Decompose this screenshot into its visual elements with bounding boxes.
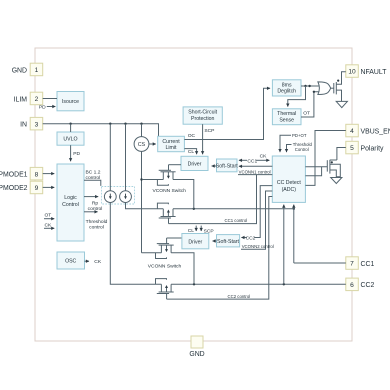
- svg-text:SCP: SCP: [204, 128, 214, 134]
- OSC box: [57, 252, 85, 269]
- wire CS sense drop: [141, 124, 143, 137]
- wire pin5 Polarity to Q3: [337, 148, 346, 161]
- wire CS to Current Limit: [149, 143, 156, 145]
- wire gate output to FET gate: [331, 87, 334, 89]
- current source I2: [120, 191, 132, 203]
- pin 10 NFAULT: [346, 65, 387, 78]
- svg-text:PD: PD: [73, 151, 80, 157]
- svg-text:Rp: Rp: [92, 201, 99, 207]
- wire soft-start1 to driver1: [212, 165, 217, 167]
- svg-text:GND: GND: [189, 351, 204, 358]
- dashed Rp current source block: [102, 187, 135, 205]
- svg-text:Short-Circuit: Short-Circuit: [188, 110, 217, 116]
- wire soft-start2 to driver2: [213, 240, 217, 242]
- CC2 stub to Soft-Start2: [241, 235, 255, 241]
- transistor Q6 CC2 switch: [156, 279, 174, 300]
- node IN-UVLO: [69, 123, 71, 125]
- wire VCONN2 control: [241, 191, 274, 249]
- svg-text:control: control: [88, 206, 103, 212]
- svg-text:OSC: OSC: [65, 259, 76, 265]
- svg-text:Protection: Protection: [191, 116, 214, 122]
- svg-text:UVLO: UVLO: [63, 137, 77, 143]
- svg-text:CC1: CC1: [361, 261, 375, 268]
- wire CC2 rail right to pin6: [171, 283, 346, 285]
- wire CC2 rail from Rp1: [110, 203, 161, 285]
- svg-text:Logic: Logic: [64, 195, 77, 201]
- svg-text:Soft-Start: Soft-Start: [217, 239, 239, 245]
- node CC1-VCONN1: [193, 208, 195, 210]
- CC Detect ADC box: [272, 156, 305, 202]
- wire CC1 sense to ADC: [293, 205, 295, 263]
- svg-text:CC2: CC2: [361, 282, 375, 289]
- transistor Q1 NFAULT: [334, 72, 346, 101]
- pin 8 PMODE1: [0, 167, 43, 180]
- node CC1-sense: [293, 208, 295, 210]
- node CS-VCONN1: [140, 178, 142, 180]
- node IN-Rp2: [124, 123, 126, 125]
- svg-text:control: control: [89, 224, 104, 230]
- svg-text:PD: PD: [39, 104, 46, 110]
- svg-text:SCP: SCP: [204, 229, 214, 235]
- node IN-Rp1: [109, 123, 111, 125]
- Rp control arrow: [84, 197, 102, 212]
- ground below Q3: [331, 178, 342, 184]
- wire IN rail: [43, 124, 159, 137]
- wire Q7 gate to Driver 2: [167, 237, 182, 239]
- node CC2-VCONN2: [193, 283, 195, 285]
- CL stub into Driver2: [188, 226, 196, 235]
- wire UVLO PD to Logic Control: [71, 145, 81, 161]
- BC 1.2 control wire: [84, 169, 101, 186]
- svg-text:CK: CK: [45, 222, 53, 228]
- pin 5 Polarity: [346, 141, 384, 154]
- wire CC2 control: [167, 197, 273, 300]
- pin 9 PMODE2: [0, 181, 43, 194]
- pin 6 CC2: [346, 278, 375, 291]
- svg-text:2: 2: [35, 96, 39, 103]
- wire CC1 control: [169, 175, 257, 224]
- svg-text:CL: CL: [188, 228, 195, 234]
- svg-text:PMODE1: PMODE1: [0, 171, 28, 178]
- OT input stub: [44, 213, 54, 219]
- svg-text:BC 1.2: BC 1.2: [86, 169, 101, 175]
- transistor Q5 VCONN switch 1: [157, 165, 175, 186]
- svg-text:Threshold: Threshold: [86, 219, 108, 225]
- OSC CK stub: [85, 259, 102, 265]
- PD+OT stub into CC Detect: [280, 133, 307, 152]
- svg-text:ILIM: ILIM: [14, 96, 28, 103]
- svg-text:Driver: Driver: [188, 240, 202, 246]
- pin 3 IN: [20, 117, 43, 129]
- Driver box 2: [182, 234, 209, 249]
- svg-text:OC: OC: [188, 133, 196, 139]
- wire VCONN1 from CS rail: [142, 179, 163, 181]
- svg-text:Deglitch: Deglitch: [277, 89, 296, 95]
- svg-text:3: 3: [35, 121, 39, 128]
- 8ms Deglitch box: [272, 80, 301, 96]
- svg-text:CK: CK: [260, 154, 268, 160]
- svg-text:IN: IN: [20, 122, 27, 129]
- wire feedback to thermal sense: [288, 86, 306, 107]
- ground below Q1: [336, 101, 347, 107]
- chip boundary frame: [35, 48, 352, 341]
- svg-text:CC1: CC1: [247, 158, 257, 164]
- CK stub into CC Detect: [256, 154, 269, 161]
- svg-text:PD+OT: PD+OT: [292, 133, 307, 138]
- CS circle: [134, 137, 149, 152]
- svg-text:VCONN Switch: VCONN Switch: [153, 188, 187, 194]
- Isource box: [57, 92, 84, 111]
- svg-text:4: 4: [350, 128, 354, 135]
- svg-text:Control: Control: [295, 147, 309, 152]
- SCP wire to driver: [203, 124, 215, 154]
- SCP stub into Driver2: [201, 226, 213, 235]
- node IN-CS: [140, 123, 142, 125]
- svg-text:10: 10: [348, 69, 356, 76]
- svg-text:Isource: Isource: [62, 99, 79, 105]
- svg-text:VCONN1 control: VCONN1 control: [239, 170, 271, 175]
- wire VCONN2 to CC2 rail: [171, 253, 194, 284]
- Short-Circuit Protection box: [183, 107, 222, 124]
- OR gate U2: [318, 82, 331, 95]
- svg-text:8ms: 8ms: [282, 82, 292, 88]
- svg-text:NFAULT: NFAULT: [361, 69, 388, 76]
- svg-text:CC1 control: CC1 control: [225, 218, 248, 223]
- pin 7 CC1: [346, 257, 375, 270]
- Thermal Sense box: [272, 109, 301, 125]
- svg-text:CC2: CC2: [246, 235, 256, 241]
- svg-text:CL: CL: [188, 149, 195, 155]
- svg-text:VCONN2 control: VCONN2 control: [242, 244, 274, 249]
- wire CC2 select: [254, 186, 272, 238]
- wire CS rail down: [141, 151, 143, 252]
- node OT-gate: [313, 91, 315, 93]
- Driver box U1: [181, 156, 208, 170]
- svg-text:Control: Control: [62, 202, 79, 208]
- wire IN to current source 2: [125, 124, 127, 191]
- Threshold control arrow: [84, 212, 108, 231]
- svg-text:Polarity: Polarity: [361, 145, 385, 152]
- svg-text:OT: OT: [303, 111, 310, 117]
- CC1 stub to Soft-Start1: [239, 158, 258, 164]
- wire pin7 CC1 sense: [294, 262, 346, 264]
- svg-text:CC Detect: CC Detect: [277, 180, 301, 186]
- CL wire to driver: [184, 149, 196, 156]
- wire pin8 to Logic Control: [43, 173, 55, 175]
- Threshold Control stub into CC Detect: [287, 142, 313, 152]
- wire deglitch output to gate: [301, 85, 319, 87]
- OT wire thermal sense to gate: [301, 92, 319, 117]
- wire VBUS_EN pin4 to CC Detect: [305, 131, 345, 186]
- svg-text:7: 7: [350, 261, 354, 268]
- wire pin9 to Logic Control: [43, 186, 55, 188]
- current source I1: [104, 191, 116, 203]
- svg-text:6: 6: [350, 282, 354, 289]
- svg-text:CK: CK: [94, 259, 102, 265]
- svg-text:Driver: Driver: [188, 161, 202, 167]
- svg-text:(ADC): (ADC): [282, 187, 297, 193]
- svg-text:Soft-Start: Soft-Start: [216, 163, 238, 169]
- Logic Control box: [57, 164, 84, 241]
- svg-text:VBUS_EN: VBUS_EN: [361, 128, 390, 135]
- wire CC1 rail right: [173, 208, 294, 210]
- PD stub into Isource: [39, 104, 55, 110]
- svg-text:CS: CS: [138, 142, 146, 148]
- svg-text:Limit: Limit: [166, 145, 178, 151]
- wire CC Detect to Soft-Start1: [239, 165, 272, 167]
- wire CC2 sense to ADC: [283, 205, 285, 285]
- svg-text:CC2 control: CC2 control: [228, 294, 251, 299]
- CK input stub: [44, 222, 54, 228]
- wire IN to current source 1: [109, 124, 111, 191]
- wire CC Detect to Q3 gate: [305, 166, 327, 168]
- svg-text:GND: GND: [12, 67, 27, 74]
- svg-text:OT: OT: [45, 213, 52, 219]
- wire CC Detect aux to gate: [305, 167, 321, 176]
- wire IN to UVLO: [70, 124, 72, 132]
- wire pin2 to Isource: [43, 98, 57, 100]
- pin GND bottom: [189, 336, 204, 358]
- svg-text:Sense: Sense: [279, 117, 294, 123]
- OC wire to deglitch: [184, 88, 270, 139]
- pin 1 GND: [12, 63, 43, 75]
- svg-text:PMODE2: PMODE2: [0, 185, 28, 192]
- wire VCONN2 from CS rail: [142, 252, 162, 254]
- pin 2 ILIM: [14, 92, 43, 105]
- svg-text:1: 1: [35, 67, 39, 74]
- svg-text:8: 8: [35, 171, 39, 178]
- pin 4 VBUS_EN: [346, 124, 390, 137]
- node deglitch-a: [304, 85, 306, 87]
- svg-text:9: 9: [35, 185, 39, 192]
- svg-text:VCONN Switch: VCONN Switch: [148, 263, 182, 269]
- Soft-Start box 1: [216, 159, 238, 172]
- wire Q5 gate to Driver: [169, 164, 182, 166]
- node CC2-sense: [283, 283, 285, 285]
- svg-text:Thermal: Thermal: [277, 111, 296, 117]
- wire CC1 rail from Rp2: [126, 203, 164, 209]
- transistor Q4 CC1 switch: [157, 203, 175, 224]
- svg-text:5: 5: [350, 145, 354, 152]
- Current Limit box: [158, 136, 185, 151]
- transistor Q3 Polarity: [327, 160, 340, 178]
- UVLO box: [57, 132, 84, 145]
- transistor Q7 VCONN switch 2: [156, 238, 174, 259]
- Soft-Start box 2: [217, 235, 240, 247]
- wire VCONN1 to CC1 rail: [173, 180, 194, 209]
- node deglitch-b: [308, 85, 310, 87]
- wire VCONN1 control: [238, 170, 272, 175]
